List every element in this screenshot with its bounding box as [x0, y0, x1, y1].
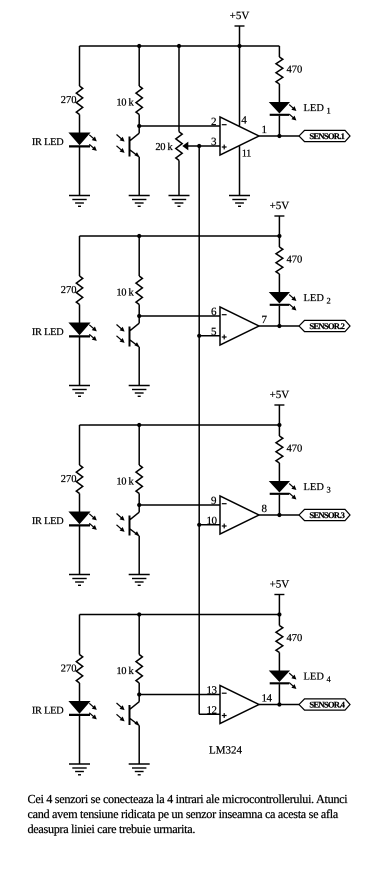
- op-amp U1C LM324 (section 3): [207, 495, 268, 534]
- resistor 470 (section 3): [276, 436, 302, 482]
- node: bus tap (section 3): [197, 523, 201, 527]
- svg-text:11: 11: [242, 149, 251, 160]
- ground (under IR LED, section 3): [69, 575, 90, 586]
- resistor 270 (section 2): [61, 276, 83, 305]
- svg-text:2: 2: [211, 116, 217, 128]
- wire: LED cathode to output node (section 4): [278, 684, 280, 704]
- resistor 10k (section 3): [116, 425, 142, 505]
- svg-text:270: 270: [61, 664, 77, 675]
- LED 4 (section 4): [270, 671, 332, 689]
- svg-text:1: 1: [327, 106, 331, 116]
- wire: phototransistor emitter to ground (section 3): [138, 536, 140, 575]
- svg-text:SENSOR.3: SENSOR.3: [309, 510, 344, 520]
- wire: LED cathode to output node (section 3): [278, 495, 280, 515]
- svg-text:+5V: +5V: [230, 10, 250, 22]
- svg-text:270: 270: [61, 95, 77, 106]
- wire: 270 to IR LED (section 1): [79, 115, 81, 134]
- node: output junction (section 1): [277, 134, 281, 138]
- wire: reference bus to op-amp non-inverting input (section 2): [199, 335, 220, 337]
- wire: 270 to IR LED (section 3): [79, 494, 81, 513]
- wire: phototransistor emitter to ground (section 1): [138, 157, 140, 196]
- ground (under phototransistor, section 3): [129, 575, 150, 586]
- net label SENSOR.4: [299, 699, 350, 710]
- svg-text:+5V: +5V: [270, 200, 290, 212]
- node: wiper/reference net: [197, 144, 201, 148]
- resistor 470 (section 4): [276, 626, 302, 672]
- svg-text:470: 470: [287, 255, 303, 266]
- wire: junction to op-amp inverting input (section 4): [139, 694, 220, 696]
- ground (under IR LED, section 1): [69, 196, 90, 207]
- potentiometer 20k (section 1): [155, 46, 199, 196]
- ground (under op-amp pin 11): [229, 196, 250, 207]
- resistor 470 (section 2): [276, 247, 302, 293]
- wire: wiper to op-amp non-inverting input (pin 3): [199, 145, 220, 147]
- resistor 270 (section 1): [61, 86, 83, 115]
- LED 3 (section 3): [270, 482, 331, 500]
- resistor 270 (section 4): [61, 655, 83, 684]
- wire: top +5V rail (section 4): [80, 612, 280, 654]
- wire: IR LED to ground (section 2): [79, 338, 81, 386]
- node: 10k/phototransistor junction (section 1): [137, 124, 141, 128]
- node: output junction (section 3): [277, 513, 281, 517]
- net label SENSOR.3: [299, 509, 350, 520]
- svg-text:270: 270: [61, 474, 77, 485]
- svg-text:3: 3: [327, 485, 331, 495]
- svg-text:Cei 4 senzori se conecteaza la: Cei 4 senzori se conecteaza la 4 intrari…: [28, 792, 349, 806]
- caption text: [28, 792, 349, 836]
- svg-text:+5V: +5V: [270, 579, 290, 591]
- resistor 470 (section 1): [276, 57, 302, 103]
- svg-text:deasupra liniei care trebuie u: deasupra liniei care trebuie urmarita.: [28, 822, 196, 836]
- wire: reference bus to op-amp non-inverting input (section 3): [199, 524, 220, 526]
- svg-text:270: 270: [61, 285, 77, 296]
- wire: IR LED to ground (section 3): [79, 527, 81, 575]
- wire: phototransistor emitter to ground (section 2): [138, 347, 140, 386]
- ground (under phototransistor, section 2): [129, 386, 150, 397]
- wire: 270 to IR LED (section 4): [79, 683, 81, 702]
- svg-text:SENSOR.2: SENSOR.2: [309, 321, 344, 331]
- wire: pin 11 V- to ground: [240, 146, 252, 195]
- svg-text:4: 4: [241, 114, 247, 126]
- svg-text:LED: LED: [304, 103, 325, 114]
- wire: op-amp output (section 2): [259, 325, 299, 327]
- svg-text:SENSOR.1: SENSOR.1: [309, 131, 344, 141]
- +5V supply (section 1): [230, 10, 250, 48]
- svg-text:20 k: 20 k: [155, 142, 173, 153]
- phototransistor (section 1): [117, 126, 140, 158]
- node: output junction (section 2): [277, 324, 281, 328]
- svg-text:10 k: 10 k: [116, 98, 134, 109]
- svg-text:IR LED: IR LED: [32, 137, 64, 148]
- phototransistor (section 3): [117, 505, 140, 537]
- ground (under IR LED, section 4): [69, 764, 90, 775]
- LED 2 (section 2): [270, 293, 331, 311]
- wire: op-amp output (section 4): [259, 704, 299, 706]
- svg-text:10: 10: [207, 515, 218, 527]
- wire: reference bus to op-amp non-inverting input (section 4): [199, 713, 220, 715]
- wire: LED cathode to output node (section 2): [278, 306, 280, 326]
- wire: IR LED to ground (section 4): [79, 716, 81, 764]
- node: 10k/phototransistor junction (section 3): [137, 503, 141, 507]
- svg-text:10 k: 10 k: [116, 477, 134, 488]
- wire: reference voltage bus (wiper to all + inputs): [199, 146, 220, 714]
- svg-text:3: 3: [211, 136, 217, 148]
- phototransistor (section 2): [117, 316, 140, 348]
- svg-text:SENSOR.4: SENSOR.4: [309, 700, 345, 710]
- resistor 10k (section 4): [116, 615, 142, 695]
- +5V supply (section 2): [270, 200, 290, 238]
- svg-text:LED: LED: [304, 482, 325, 493]
- ground (under IR LED, section 2): [69, 386, 90, 397]
- svg-text:LM324: LM324: [209, 745, 243, 757]
- IR LED (section 1): [32, 133, 97, 151]
- resistor 10k (section 1): [116, 46, 142, 126]
- resistor 270 (section 3): [61, 465, 83, 494]
- +5V supply (section 3): [270, 389, 290, 427]
- phototransistor (section 4): [117, 695, 140, 727]
- svg-text:470: 470: [287, 65, 303, 76]
- wire: top +5V rail (section 1): [80, 44, 280, 86]
- svg-text:10 k: 10 k: [116, 288, 134, 299]
- ground (under 20k pot): [169, 196, 190, 207]
- svg-text:470: 470: [287, 633, 303, 644]
- node: output junction (section 4): [277, 702, 281, 706]
- svg-text:6: 6: [211, 306, 217, 318]
- svg-text:8: 8: [262, 503, 268, 515]
- net label SENSOR.1: [299, 130, 350, 141]
- wire: junction to op-amp inverting input (section 2): [139, 315, 220, 317]
- node: 10k/phototransistor junction (section 2): [137, 314, 141, 318]
- svg-text:2: 2: [327, 296, 331, 306]
- node: bus tap (section 2): [197, 334, 201, 338]
- svg-text:IR LED: IR LED: [32, 516, 64, 527]
- wire: op-amp output (section 1): [259, 135, 299, 137]
- wire: op-amp output (section 3): [259, 514, 299, 516]
- op-amp U1A LM324 (section 1): [211, 116, 267, 155]
- svg-text:9: 9: [211, 495, 217, 507]
- ground (under phototransistor, section 4): [129, 764, 150, 775]
- resistor 10k (section 2): [116, 236, 142, 316]
- svg-text:1: 1: [262, 124, 268, 136]
- wire: phototransistor emitter to ground (section 4): [138, 726, 140, 765]
- svg-text:LED: LED: [304, 672, 325, 683]
- svg-text:IR LED: IR LED: [32, 706, 64, 717]
- wire: top +5V rail (section 2): [80, 234, 280, 276]
- svg-text:10 k: 10 k: [116, 666, 134, 677]
- svg-text:14: 14: [262, 693, 273, 705]
- wire: LED cathode to output node (section 1): [278, 116, 280, 136]
- net label SENSOR.2: [299, 320, 350, 331]
- svg-text:IR LED: IR LED: [32, 327, 64, 338]
- wire: IR LED to ground (section 1): [79, 148, 81, 196]
- IR LED (section 4): [32, 702, 97, 720]
- svg-text:cand avem tensiune ridicata pe: cand avem tensiune ridicata pe un senzor…: [28, 807, 339, 821]
- wire: top +5V rail (section 3): [80, 423, 280, 465]
- svg-text:7: 7: [262, 314, 268, 326]
- op-amp U1D LM324 (section 4): [207, 685, 273, 724]
- svg-text:5: 5: [211, 326, 217, 338]
- node: 10k/phototransistor junction (section 4): [137, 692, 141, 696]
- wire: pin 4 V+ supply: [240, 46, 248, 126]
- IR LED (section 2): [32, 323, 97, 341]
- svg-text:+5V: +5V: [270, 389, 290, 401]
- ground (under phototransistor, section 1): [129, 196, 150, 207]
- wire: 270 to IR LED (section 2): [79, 305, 81, 324]
- op-amp U1B LM324 (section 2): [211, 306, 268, 345]
- IR LED (section 3): [32, 512, 97, 530]
- LED 1 (section 1): [270, 103, 331, 121]
- svg-text:470: 470: [287, 444, 303, 455]
- svg-text:13: 13: [207, 685, 218, 697]
- wire: junction to op-amp inverting input (section 1): [139, 125, 220, 127]
- wire: junction to op-amp inverting input (section 3): [139, 504, 220, 506]
- svg-text:LED: LED: [304, 293, 325, 304]
- +5V supply (section 4): [270, 579, 290, 617]
